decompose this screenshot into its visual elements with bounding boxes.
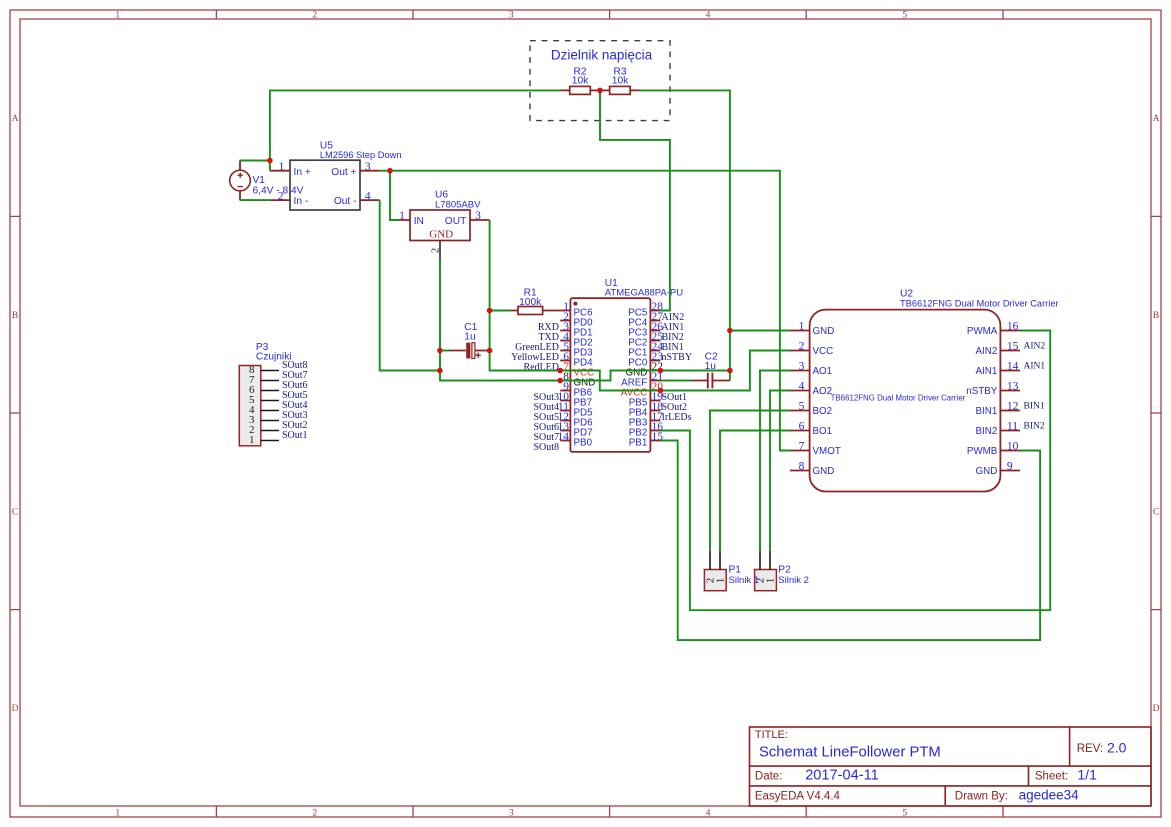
- svg-text:2: 2: [430, 248, 442, 254]
- svg-text:4: 4: [706, 808, 711, 818]
- svg-text:5: 5: [902, 10, 907, 20]
- wire V1+ to U5 in+: [240, 161, 270, 171]
- node divider mid: [597, 88, 603, 94]
- svg-text:1u: 1u: [464, 332, 475, 343]
- svg-text:12: 12: [1007, 400, 1019, 412]
- TITLE BLOCK: [750, 727, 1152, 806]
- svg-text:14: 14: [558, 431, 570, 443]
- svg-text:1: 1: [714, 578, 726, 584]
- svg-text:9: 9: [1007, 460, 1013, 472]
- svg-text:13: 13: [1007, 380, 1019, 392]
- svg-text:2017-04-11: 2017-04-11: [805, 768, 879, 784]
- svg-text:2: 2: [312, 808, 317, 818]
- svg-text:TITLE:: TITLE:: [755, 729, 788, 741]
- svg-text:B: B: [12, 311, 18, 321]
- svg-text:ATMEGA88PA-PU: ATMEGA88PA-PU: [605, 287, 683, 298]
- svg-text:PWMB: PWMB: [967, 446, 998, 457]
- svg-text:Sheet:: Sheet:: [1035, 771, 1068, 783]
- svg-text:PWMA: PWMA: [967, 326, 998, 337]
- svg-text:L7805ABV: L7805ABV: [435, 199, 481, 210]
- svg-text:nSTBY: nSTBY: [662, 352, 693, 363]
- wire V1- to U5 in-: [240, 199, 270, 201]
- wire R3 right to vertical bus: [640, 90, 730, 380]
- motor driver U2 TB6612FNG: [810, 288, 1059, 491]
- svg-text:3: 3: [475, 210, 481, 222]
- svg-text:LM2596 Step Down: LM2596 Step Down: [320, 150, 402, 160]
- svg-text:7: 7: [799, 440, 805, 452]
- svg-text:GND: GND: [813, 466, 835, 477]
- U2 net labels right: [1024, 342, 1046, 432]
- svg-text:5: 5: [799, 400, 805, 412]
- svg-text:IrLEDs: IrLEDs: [662, 412, 692, 423]
- svg-text:A: A: [12, 114, 19, 124]
- svg-text:VMOT: VMOT: [813, 446, 841, 457]
- connector P2 Silnik 2: [754, 551, 809, 591]
- wire out+ to VMOT: [390, 171, 790, 451]
- wire VCC pin7 cross to AVCC pin20: [560, 371, 660, 391]
- svg-text:nSTBY: nSTBY: [966, 386, 998, 397]
- U1 net labels right: [662, 312, 693, 423]
- svg-text:PB0: PB0: [574, 437, 593, 448]
- svg-text:Out -: Out -: [334, 196, 357, 207]
- svg-text:16: 16: [1007, 320, 1019, 332]
- node VCC pin7: [557, 368, 563, 374]
- U1 right pin stubs: [650, 311, 660, 441]
- svg-text:SOut8: SOut8: [533, 442, 559, 453]
- voltage source V1: [230, 161, 304, 201]
- svg-text:3: 3: [799, 360, 805, 372]
- wire battery+ up to divider R2: [270, 90, 560, 160]
- node GND pin8: [557, 378, 563, 384]
- svg-text:3: 3: [509, 10, 514, 20]
- svg-text:1: 1: [764, 578, 776, 584]
- wire U2 AO2 to P2 pin1: [770, 391, 790, 551]
- svg-text:Out +: Out +: [331, 167, 356, 178]
- wire divider mid to U1 PC5 pin28: [600, 90, 670, 310]
- node 5V at R1: [487, 308, 493, 314]
- svg-text:3: 3: [365, 161, 371, 173]
- node GND pin22: [658, 368, 664, 374]
- svg-text:1: 1: [399, 210, 405, 222]
- node out+: [387, 168, 393, 174]
- svg-text:1: 1: [249, 434, 255, 446]
- capacitor C2 1u: [691, 351, 730, 388]
- node bus-U2GND: [727, 328, 733, 334]
- wire U5 out- down to GND rail: [380, 200, 440, 370]
- node C1 left: [437, 348, 443, 354]
- svg-text:TB6612FNG Dual Motor Driver Ca: TB6612FNG Dual Motor Driver Carrier: [831, 394, 966, 403]
- svg-text:BIN2: BIN2: [1024, 422, 1045, 432]
- svg-text:TB6612FNG Dual Motor Driver Ca: TB6612FNG Dual Motor Driver Carrier: [900, 299, 1059, 309]
- svg-text:In +: In +: [294, 167, 311, 178]
- svg-text:6,4V - 8,4V: 6,4V - 8,4V: [253, 186, 304, 197]
- MCU U1 ATMEGA88PA-PU: [570, 278, 683, 452]
- svg-text:1: 1: [799, 320, 805, 332]
- wire U6 GND down to C1 rail: [440, 260, 560, 381]
- resistor R1 100k: [510, 287, 560, 314]
- node GND rail: [437, 368, 443, 374]
- node C1 right: [487, 348, 493, 354]
- wire U1 PB2 to U2 PWMA: [660, 331, 1050, 611]
- wire AREF pin21 to C2: [660, 380, 690, 382]
- svg-text:GND: GND: [813, 326, 835, 337]
- svg-text:V1: V1: [253, 175, 266, 186]
- U1 pin numbers left: [558, 301, 570, 443]
- regulator U6 L7805ABV: [399, 190, 489, 260]
- svg-text:BIN1: BIN1: [1024, 402, 1045, 412]
- svg-text:Silnik 1: Silnik 1: [729, 575, 760, 586]
- svg-text:4: 4: [799, 380, 805, 392]
- svg-text:B: B: [1153, 311, 1159, 321]
- svg-text:2.0: 2.0: [1107, 739, 1127, 755]
- node AVCC pin20: [658, 388, 664, 394]
- svg-text:6: 6: [799, 420, 805, 432]
- svg-text:10: 10: [1007, 440, 1019, 452]
- regulator U5 LM2596: [270, 141, 402, 210]
- svg-text:AIN2: AIN2: [976, 346, 998, 357]
- wire U2 BO1 to P1 pin1: [720, 431, 790, 551]
- svg-text:In -: In -: [294, 196, 309, 207]
- svg-text:C: C: [12, 508, 18, 518]
- svg-text:10k: 10k: [572, 75, 589, 86]
- U2 left pin stubs: [790, 331, 810, 471]
- wire GND pin22 to bus: [660, 370, 730, 372]
- capacitor C1 1u polarized: [450, 322, 490, 359]
- wire U2 AO1 to P2 pin2: [760, 371, 790, 551]
- wire U1 PB1 to U2 PWMB: [660, 441, 1040, 641]
- svg-text:IN: IN: [414, 216, 424, 227]
- U1 pin names right: [621, 307, 648, 448]
- svg-text:EasyEDA V4.4.4: EasyEDA V4.4.4: [755, 791, 841, 803]
- svg-text:Date:: Date:: [755, 771, 783, 783]
- U1 net labels left: [511, 322, 559, 453]
- wire out+ down to U6 IN: [390, 171, 400, 220]
- svg-text:AO2: AO2: [813, 386, 833, 397]
- svg-text:GND: GND: [429, 229, 453, 241]
- svg-text:1: 1: [115, 10, 120, 20]
- svg-text:agedee34: agedee34: [1019, 788, 1080, 803]
- connector P1 Silnik 1: [704, 551, 759, 591]
- wire AVCC to U2 VCC: [660, 351, 790, 391]
- resistor R2 10k: [560, 66, 600, 94]
- svg-text:PB1: PB1: [629, 437, 648, 448]
- svg-text:GND: GND: [976, 466, 998, 477]
- node bus-U1GND: [727, 368, 733, 374]
- svg-text:D: D: [1153, 704, 1160, 714]
- wire 5V node to R1: [490, 310, 510, 312]
- svg-text:10k: 10k: [612, 75, 629, 86]
- svg-text:100k: 100k: [519, 297, 542, 308]
- wire U6 OUT down to VCC rail: [490, 220, 561, 371]
- svg-text:D: D: [12, 704, 19, 714]
- svg-text:AIN2: AIN2: [1024, 342, 1046, 352]
- U2 pin numbers: [799, 320, 1019, 472]
- svg-text:AIN1: AIN1: [1024, 362, 1046, 372]
- U2 pin names: [813, 326, 998, 477]
- svg-text:8: 8: [799, 460, 805, 472]
- svg-text:C: C: [1153, 508, 1159, 518]
- svg-text:BO2: BO2: [813, 406, 833, 417]
- U1 pin numbers right: [652, 301, 664, 443]
- svg-text:AO1: AO1: [813, 366, 833, 377]
- svg-text:BIN1: BIN1: [976, 406, 998, 417]
- svg-text:Dzielnik napięcia: Dzielnik napięcia: [551, 48, 653, 63]
- connector P3 Czujniki: [239, 342, 307, 446]
- svg-text:2: 2: [799, 340, 805, 352]
- U1 left pin stubs: [560, 311, 570, 441]
- svg-text:11: 11: [1007, 420, 1018, 432]
- svg-text:REV:: REV:: [1077, 743, 1103, 755]
- svg-text:1: 1: [279, 161, 285, 173]
- wire bus to U2 GND pin1: [730, 330, 790, 332]
- svg-text:Drawn By:: Drawn By:: [955, 791, 1008, 803]
- node bat+ corner: [267, 158, 273, 164]
- svg-text:1/1: 1/1: [1077, 767, 1097, 783]
- wire GND pin8 cross to GND pin22: [560, 371, 660, 381]
- svg-text:15: 15: [1007, 340, 1019, 352]
- svg-text:1: 1: [115, 808, 120, 818]
- svg-text:3: 3: [509, 808, 514, 818]
- svg-text:5: 5: [902, 808, 907, 818]
- svg-text:BO1: BO1: [813, 426, 833, 437]
- svg-text:Schemat LineFollower PTM: Schemat LineFollower PTM: [759, 745, 941, 761]
- svg-text:SOut1: SOut1: [282, 430, 308, 441]
- junction dots: [267, 88, 733, 394]
- wire U2 BO2 to P1 pin2: [710, 411, 790, 551]
- svg-text:OUT: OUT: [445, 216, 467, 227]
- svg-text:A: A: [1153, 114, 1160, 124]
- wire C1 left to GND: [440, 350, 450, 352]
- svg-text:AIN1: AIN1: [976, 366, 998, 377]
- U2 right pin stubs: [1000, 331, 1020, 471]
- resistor R3 10k: [600, 66, 640, 94]
- dashed box Dzielnik napiecia: [530, 41, 670, 121]
- wire U5 out+ node: [380, 170, 390, 172]
- svg-text:Silnik 2: Silnik 2: [778, 575, 809, 586]
- svg-text:4: 4: [365, 190, 371, 202]
- svg-text:14: 14: [1007, 360, 1019, 372]
- U1 pin names left: [574, 307, 596, 448]
- svg-text:4: 4: [706, 10, 711, 20]
- svg-text:VCC: VCC: [813, 346, 834, 357]
- svg-text:2: 2: [312, 10, 317, 20]
- svg-text:BIN2: BIN2: [976, 426, 998, 437]
